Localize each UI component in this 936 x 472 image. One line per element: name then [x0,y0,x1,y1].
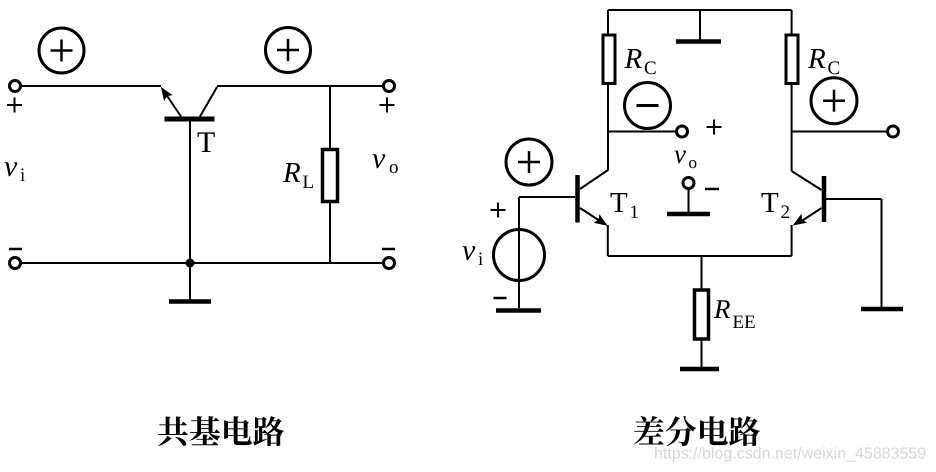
wire top-left horizontal [22,85,162,87]
T2 base ground lead [881,199,883,307]
T2 base wire [826,198,882,200]
wire R_L branch upper [329,86,331,149]
terminal bottom-left [10,258,21,269]
T2 emitter lead down [791,225,793,256]
watermark text (light gray) [655,447,925,462]
transistor T collector wire [200,87,217,117]
resistor RC left [603,35,615,84]
label T_2 [762,193,790,218]
terminal vo minus [683,178,694,189]
T1 emitter arrow [594,214,608,226]
REE lead upper [701,256,703,290]
common emitter wire [608,255,792,257]
REE lead lower [701,339,703,367]
source circle S2 (+) top-middle [266,28,311,73]
wire top-right horizontal [217,85,383,87]
terminal vo plus [677,126,688,137]
label R_C right [808,49,839,74]
source circle S1 (+) top-left [39,28,84,73]
wire collector node left to vo terminal [608,131,677,133]
source circle vi [494,230,545,281]
ground bar under REE [680,367,719,372]
transistor T emitter wire [166,94,182,117]
T2 emitter arrow [793,214,807,226]
wire right collector node to output terminal [792,131,887,133]
transistor T base bar [165,117,215,122]
wire bottom horizontal [22,262,384,264]
T2 collector wire [792,171,822,190]
terminal input top-left [10,81,21,92]
label v_i (right circuit) [462,246,483,265]
T1 emitter lead down [607,225,609,256]
caption 共基电路 (common-base circuit) [158,416,284,446]
polarity + above vi source [491,209,506,211]
T1 base wire [519,196,575,198]
ground bar under T2 base [861,307,903,312]
polarity - right of lower vo terminal [705,188,719,191]
source circle (+) right [811,78,857,124]
ground bar left circuit [169,299,211,304]
label R_L [283,163,313,188]
wire left RC lower to collector node [607,84,609,171]
caption 差分电路 (differential circuit) [634,416,760,446]
vi lead vertical [518,197,520,308]
ground bar under vi [496,308,541,313]
transistor T1 base bar [575,175,580,223]
resistor R_L [323,150,338,202]
terminal output top-right [384,81,395,92]
polarity + under input terminal [7,104,22,106]
T2 emitter wire [801,208,822,222]
ground bar below vo terminal [667,212,710,217]
polarity + right of vo terminal [707,126,722,128]
resistor RC right [786,35,798,84]
T1 emitter wire [580,208,600,221]
ground lead below vo terminal [688,189,690,213]
terminal bottom-right [384,258,395,269]
label R_EE [714,300,755,328]
polarity - above bottom-left terminal [9,248,22,251]
label T (transistor) [198,132,215,152]
polarity - above bottom-right terminal [382,248,395,251]
wire R_L branch lower [329,202,331,264]
source circle (-) left [625,83,671,129]
source circle (+) above vi [506,139,552,185]
wire left RC upper [607,10,609,35]
transistor T base lead [189,122,191,264]
ground lead top center [699,10,701,40]
label v_i (left circuit) [4,162,25,181]
ground lead left circuit [189,263,191,300]
polarity - below vi source [494,297,507,300]
wire right RC lower to collector node [791,84,793,172]
label R_C left [624,49,655,74]
polarity + under output terminal [380,104,395,106]
label v_o (left circuit) [372,154,397,173]
terminal output right [888,126,899,137]
junction node dot [186,259,195,268]
label T_1 [611,193,638,218]
ground bar top center [676,39,721,44]
wire right RC upper [791,10,793,35]
wire top rail [608,9,792,11]
transistor T2 base bar [822,176,827,222]
resistor REE [695,290,709,339]
transistor T emitter arrow [161,87,173,101]
label v_o (right circuit) [674,151,696,169]
T1 collector wire [580,170,608,189]
